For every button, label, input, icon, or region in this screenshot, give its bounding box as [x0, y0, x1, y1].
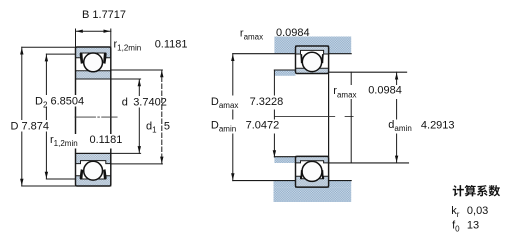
dimension D2 line — [45, 54, 47, 179]
label D_amax — [209, 96, 284, 110]
dimension D arrows — [20, 48, 23, 55]
dimension D line — [21, 47, 23, 186]
D_a shoulder face lines (top) — [233, 53, 296, 55]
svg-text:0.0984: 0.0984 — [368, 85, 402, 97]
housing bottom left shoulder — [274, 181, 296, 188]
dimension B line — [76, 30, 111, 32]
label r_amax mid — [332, 85, 404, 100]
svg-text:D2 6.8504: D2 6.8504 — [35, 96, 84, 110]
outer ring band — [76, 176, 111, 186]
ball — [302, 52, 321, 71]
svg-text:5: 5 — [164, 121, 170, 133]
svg-text:7.3228: 7.3228 — [250, 96, 284, 108]
label d1 — [144, 120, 170, 135]
shaft bore line (bottom left) — [274, 156, 295, 158]
svg-text:13: 13 — [467, 220, 479, 232]
ball — [84, 53, 103, 72]
bottom section top edge — [76, 152, 111, 154]
svg-text:d: d — [122, 97, 128, 109]
dimension D leaders — [22, 47, 76, 186]
housing top left shoulder — [274, 46, 295, 54]
housing top band — [274, 37, 351, 47]
right bearing bottom section outline — [296, 156, 329, 187]
svg-text:0.1181: 0.1181 — [90, 134, 123, 146]
svg-text:B 1.7717: B 1.7717 — [82, 9, 126, 21]
dimension B extension lines — [76, 29, 111, 47]
d_a level line right bottom — [329, 162, 409, 164]
right bearing top section outline — [296, 46, 329, 74]
outer ring band — [296, 176, 329, 187]
d_a level line right top — [329, 71, 407, 73]
raceway shoulder wedges — [300, 54, 303, 63]
housing top right shoulder — [329, 46, 352, 54]
dimension D_amax line — [232, 54, 234, 181]
inner ring band — [76, 153, 111, 163]
svg-text:3.7402: 3.7402 — [133, 97, 167, 109]
svg-text:0.1181: 0.1181 — [155, 38, 188, 50]
svg-text:0.0984: 0.0984 — [276, 27, 310, 39]
dimension d1 arrows — [160, 71, 163, 78]
dimension d1 line (dashed) — [161, 70, 163, 164]
dimension D2 arrows — [45, 55, 48, 62]
shaft shoulder top left — [274, 70, 295, 76]
raceway shoulder wedges — [80, 169, 84, 179]
label d — [120, 96, 167, 109]
dimension d leaders — [111, 79, 141, 153]
label D_amin — [209, 120, 280, 134]
svg-text:D 7.874: D 7.874 — [11, 121, 50, 133]
housing bottom right shoulder — [329, 181, 352, 188]
centerline axis (right) — [275, 116, 353, 118]
ball — [84, 161, 103, 180]
label r12min lower — [49, 134, 124, 149]
label d_amin — [387, 119, 456, 134]
raceway shoulder wedges — [80, 53, 84, 64]
top section bottom edge — [76, 78, 111, 80]
label D2 — [33, 95, 86, 110]
svg-text:7.0472: 7.0472 — [246, 120, 280, 132]
svg-text:0,03: 0,03 — [467, 205, 488, 217]
dimension B arrows — [76, 30, 83, 33]
ball — [302, 161, 322, 181]
housing bottom band — [274, 187, 352, 202]
right bearing right edge through bore — [328, 74, 330, 157]
bearing outline rect — [76, 47, 111, 186]
dimension D_amin line — [273, 70, 275, 157]
outer ring band — [296, 46, 329, 54]
svg-text:4.2913: 4.2913 — [421, 120, 455, 132]
d_a shaft shoulder line (top left) — [274, 69, 295, 71]
dimension d arrows — [138, 80, 141, 87]
dimension D2 leaders — [46, 54, 75, 179]
inner ring band — [76, 71, 111, 79]
centerline axis (left) — [75, 116, 117, 118]
dimension d_amin line — [396, 72, 398, 163]
D_a shoulder face lines (bottom) — [233, 180, 296, 182]
dimension d line — [138, 79, 140, 153]
label D — [9, 120, 51, 133]
raceway shoulder wedges — [300, 170, 303, 179]
vertical at housing band right edge — [350, 72, 352, 163]
outer ring band — [76, 47, 111, 58]
dimension d1 leaders — [111, 70, 163, 164]
inner ring band — [296, 156, 329, 163]
heading 计算系数 (vector paths) — [453, 185, 500, 196]
shaft shoulder bottom left — [274, 157, 295, 163]
inner ring band — [296, 68, 329, 73]
